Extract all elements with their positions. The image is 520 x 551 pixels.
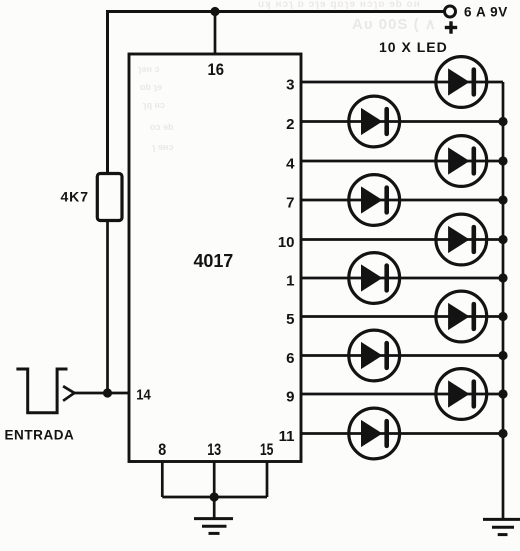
svg-text:16: 16	[208, 60, 225, 79]
svg-text:ɒb ɿɘ: ɒb ɿɘ	[140, 82, 162, 92]
LED D1 (pin 3 row)	[436, 57, 487, 108]
svg-text:3: 3	[286, 77, 294, 94]
LED D9 (pin 9 row)	[436, 369, 487, 420]
wire: pin 7 output row	[300, 199, 503, 202]
input arrow into pin 14	[63, 386, 74, 401]
svg-text:uʞ ʜɔɿ ɒ ɔɿɘ qɒɿɘ ʜɔɿɒ ɘb oʜ: uʞ ʜɔɿ ɒ ɔɿɘ qɒɿɘ ʜɔɿɒ ɘb oʜ	[258, 0, 421, 10]
node: bus dot row 5	[498, 312, 507, 321]
LED D10 (pin 11 row)	[349, 408, 400, 459]
node: bus dot row 10	[498, 235, 507, 244]
ground (right, under LED bus)	[483, 519, 520, 534]
wire: pin 6 output row	[300, 354, 503, 357]
wire: pin 5 output row	[300, 315, 503, 318]
wire: ground stem	[213, 497, 216, 519]
wire: top V+ rail	[106, 10, 445, 13]
node: bus dot row 9	[498, 389, 507, 398]
wire: bottom pins common	[162, 496, 267, 499]
resistor R1 4K7	[97, 174, 122, 221]
svg-text:5: 5	[286, 311, 294, 328]
node: junction dot left rail / pin 14	[103, 388, 112, 397]
wire: pin 1 output row	[300, 277, 503, 280]
svg-text:ENTRADA: ENTRADA	[5, 428, 75, 443]
wire: pin 8 down	[161, 462, 164, 498]
LED D3 (pin 4 row)	[436, 136, 487, 187]
wire: from top rail down to pin 16	[214, 12, 217, 55]
svg-text:4K7: 4K7	[61, 188, 89, 204]
wire: pin 10 output row	[300, 238, 503, 241]
svg-text:4: 4	[286, 156, 295, 173]
svg-text:13: 13	[207, 440, 221, 459]
node: bus dot row 4	[498, 156, 507, 165]
wire: pin 13 down	[213, 462, 216, 498]
node: bus dot row 11	[498, 429, 507, 438]
node: junction dot on top rail above pin 16	[210, 7, 219, 16]
wire: pin 2 output row	[300, 120, 503, 123]
LED D2 (pin 2 row)	[349, 96, 400, 147]
svg-text:oɔ ɘb: oɔ ɘb	[150, 122, 174, 132]
svg-text:ɿq ʜɔ: ɿq ʜɔ	[143, 100, 165, 110]
svg-text:10: 10	[278, 234, 295, 251]
input pulse waveform symbol	[16, 369, 67, 413]
svg-text:10 X LED: 10 X LED	[379, 39, 448, 55]
LED D8 (pin 6 row)	[349, 330, 400, 381]
svg-text:4017: 4017	[194, 251, 234, 271]
LED D4 (pin 7 row)	[349, 175, 400, 226]
svg-text:14: 14	[136, 387, 151, 404]
svg-text:15: 15	[260, 440, 274, 459]
node: bus dot row 6	[498, 351, 507, 360]
svg-text:2: 2	[286, 116, 294, 133]
wire: right cathode bus	[502, 82, 505, 519]
wire: pin 9 output row	[300, 393, 503, 396]
ground (left, under IC)	[194, 519, 233, 534]
wire: left rail upper segment (rail corner to resistor)	[106, 10, 109, 174]
wire: pin 4 output row	[300, 160, 503, 163]
svg-text:7: 7	[286, 195, 294, 212]
node: bus dot row 1	[498, 273, 507, 282]
svg-text:6 A 9V: 6 A 9V	[464, 5, 508, 20]
svg-text:ɿ ɘʜɔ: ɿ ɘʜɔ	[152, 142, 173, 152]
node: junction dot under pin 13	[210, 492, 219, 501]
LED D7 (pin 5 row)	[436, 291, 487, 342]
wire: pin 11 output row	[300, 432, 503, 435]
wire: pin 15 down	[266, 462, 269, 498]
svg-text:8: 8	[158, 440, 166, 459]
node: bus dot row 7	[498, 195, 507, 204]
svg-text:Aᴜ 00S ( ∧: Aᴜ 00S ( ∧	[352, 16, 437, 33]
svg-text:1: 1	[286, 273, 294, 290]
LED D6 (pin 1 row)	[349, 253, 400, 304]
node: bus dot row 2	[498, 117, 507, 126]
wire: left rail lower segment (resistor to pin 14 node)	[106, 221, 109, 394]
wire: arrow to pin 14	[74, 392, 129, 395]
IC U1 4017 body	[129, 54, 301, 462]
svg-text:11: 11	[279, 428, 295, 445]
battery terminal (+ supply)	[445, 6, 456, 17]
svg-text:9: 9	[286, 389, 294, 406]
svg-text:ɿɘʜ ɔ: ɿɘʜ ɔ	[138, 64, 159, 74]
polarity + sign	[445, 21, 457, 33]
svg-text:6: 6	[286, 350, 294, 367]
wire: pin 3 output row	[300, 81, 503, 84]
LED D5 (pin 10 row)	[436, 214, 487, 265]
